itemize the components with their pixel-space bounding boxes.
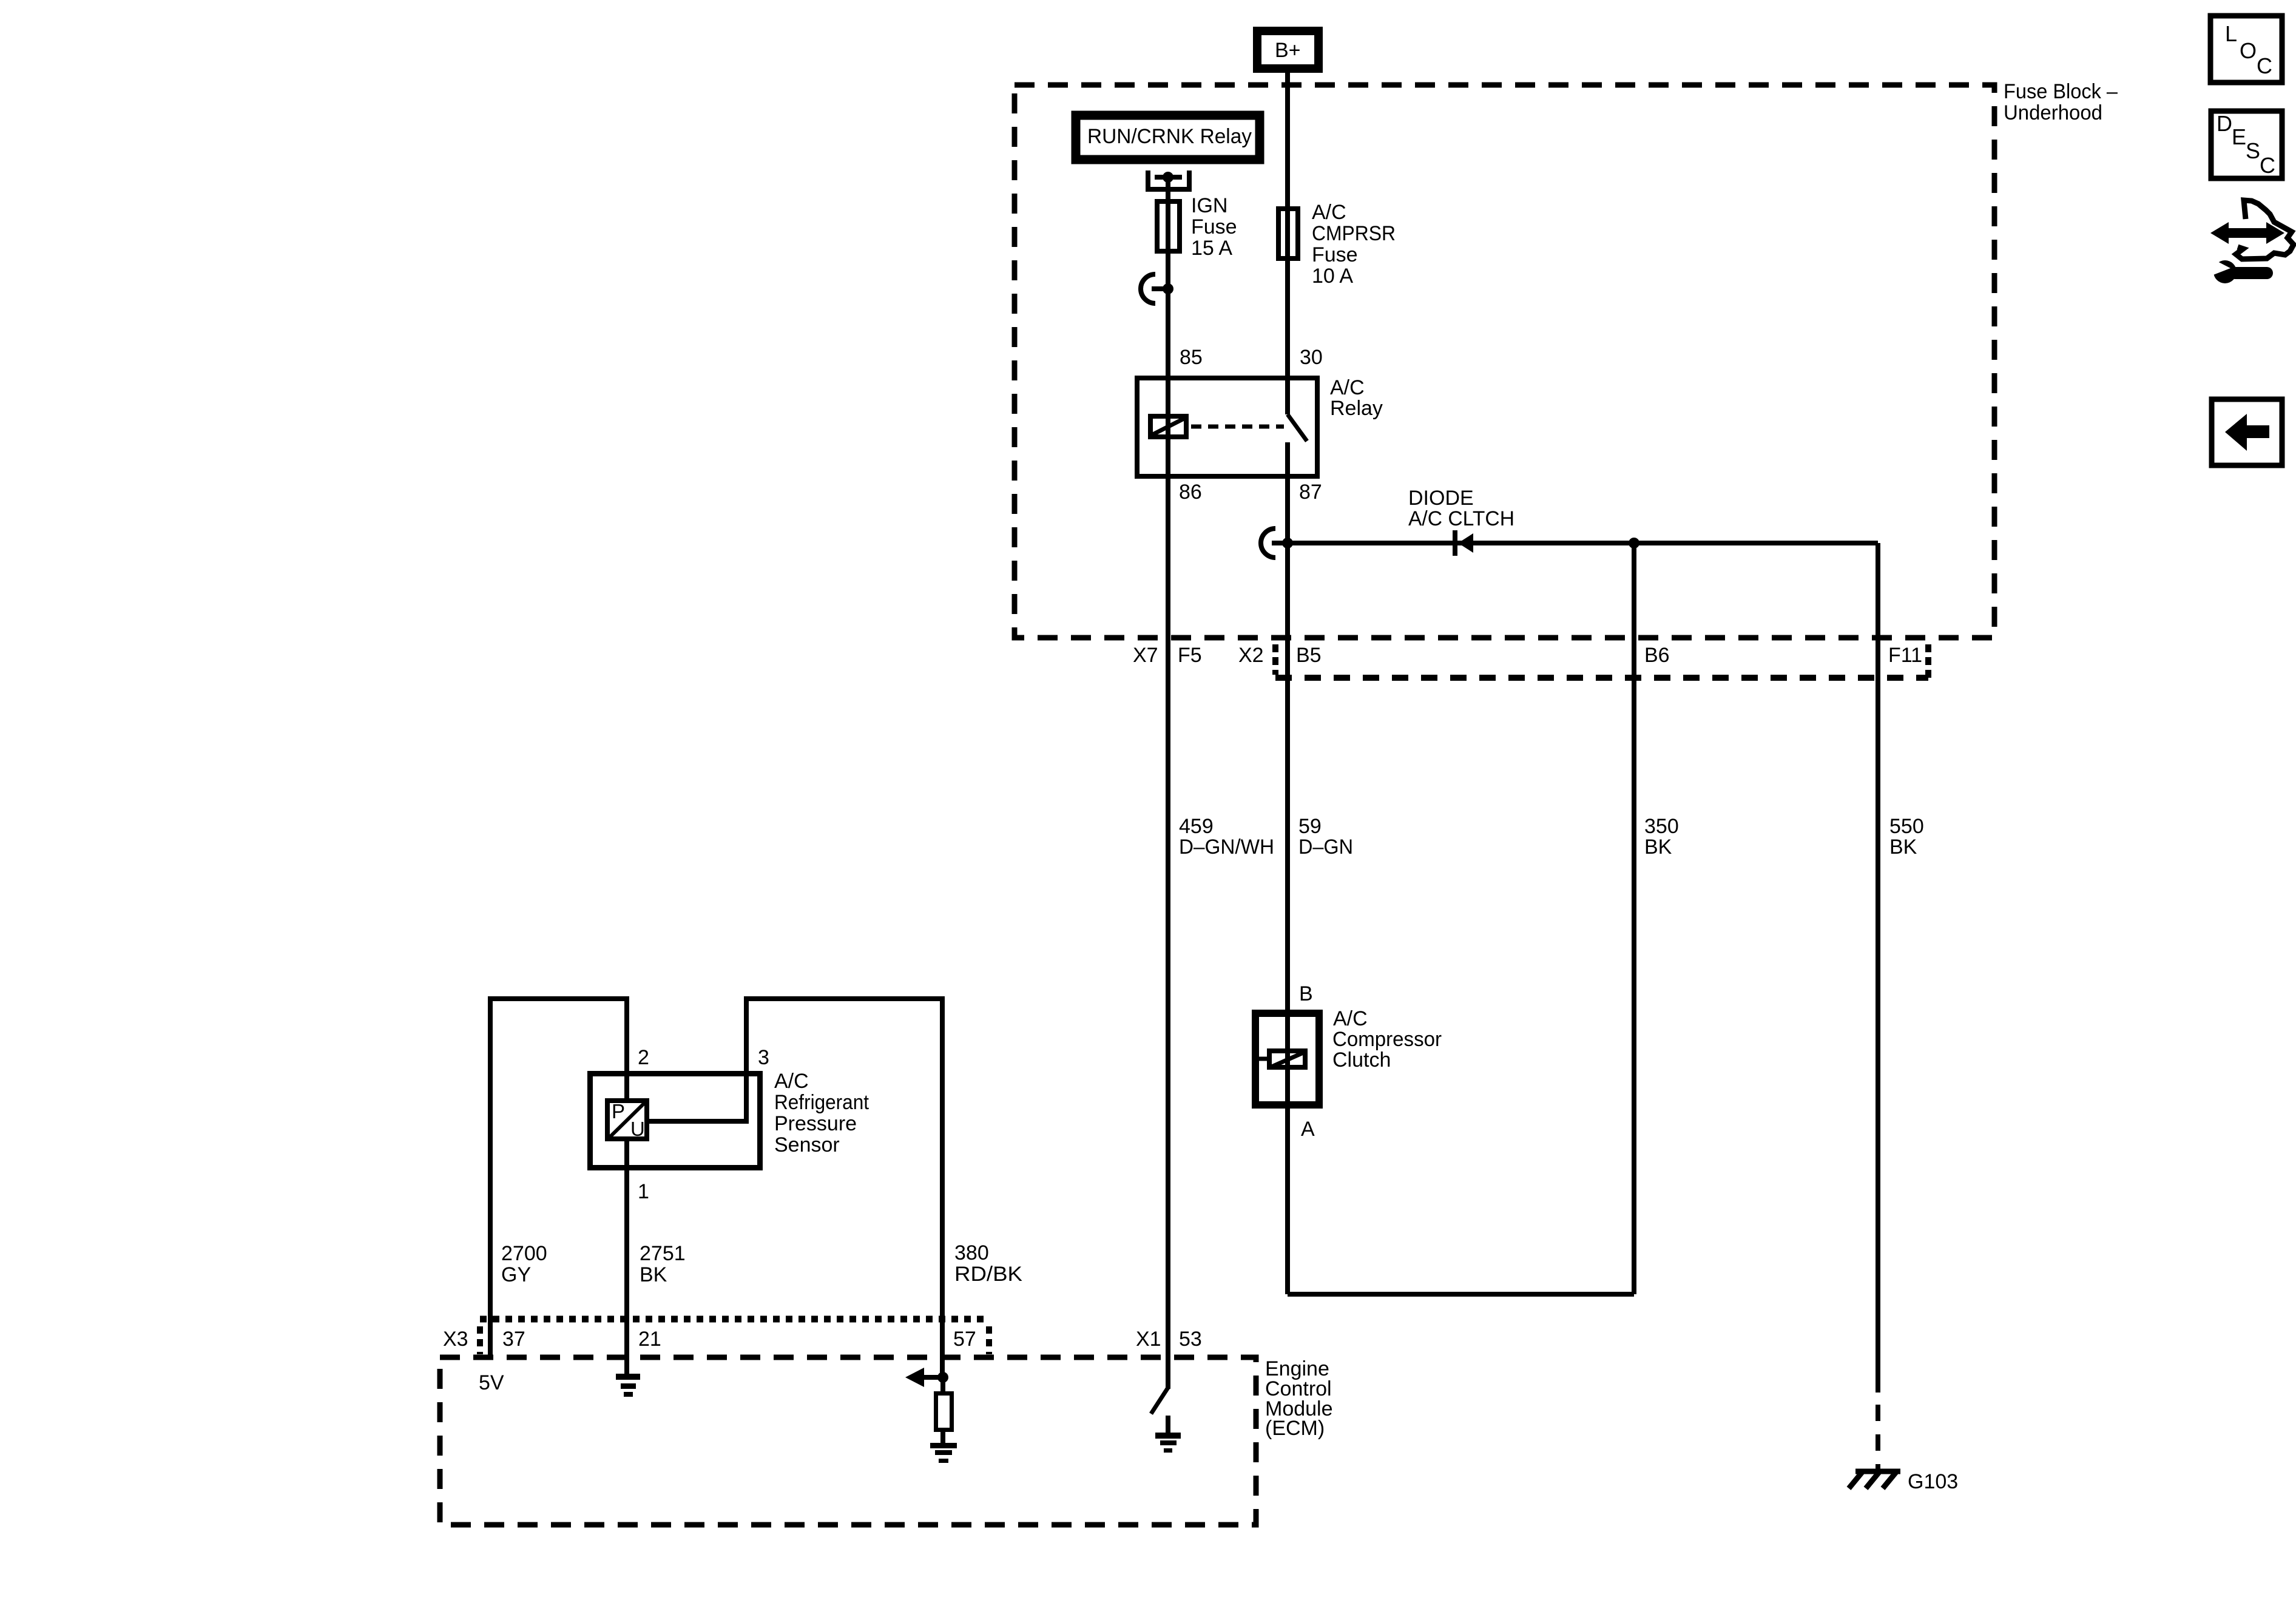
svg-text:B5: B5 [1296,644,1322,667]
signal arrow into ECM [905,1368,943,1387]
A/C compressor clutch coil box [1255,1013,1319,1105]
svg-text:57: 57 [953,1328,976,1351]
svg-text:S: S [2246,138,2260,163]
icon back arrow button [2212,399,2282,465]
icon LOC button [2210,16,2282,83]
switch low-side driver at ECM pin 53 [1151,1388,1168,1414]
connector X3 dotted row at ECM [480,1319,989,1354]
svg-text:A/C: A/C [1333,1007,1368,1030]
label Engine Control Module (ECM) [1265,1357,1333,1440]
fuse F2 A/C CMPRSR 10 A [1278,201,1396,288]
svg-text:Fuse: Fuse [1312,243,1358,266]
svg-text:DIODE: DIODE [1408,487,1474,510]
svg-text:F11: F11 [1888,644,1922,667]
junction dot at ECM pin 57 [937,1372,948,1383]
svg-text:L: L [2225,21,2237,46]
wire sensor internal signal horizontal [649,1119,749,1124]
svg-text:X7: X7 [1133,644,1158,667]
wire 5V circuit 2700 GY loop [490,999,627,1357]
svg-text:Underhood: Underhood [2004,101,2102,124]
svg-text:Compressor: Compressor [1332,1028,1442,1051]
svg-text:Fuse Block –: Fuse Block – [2004,80,2118,103]
icon DESC button [2211,111,2282,178]
wire 550 BK dashed continuation to G103 [1876,1405,1880,1474]
svg-text:Relay: Relay [1330,397,1383,420]
ground G103 chassis symbol [1849,1471,1900,1488]
svg-text:2: 2 [638,1046,649,1069]
svg-text:Clutch: Clutch [1332,1048,1391,1072]
wire label 2700 GY [501,1242,547,1286]
svg-text:P: P [612,1100,625,1122]
svg-text:A/C: A/C [1312,201,1346,224]
junction dot at relay socket [1163,172,1173,183]
connector X2 dotted bracket at fuse block [1275,644,1928,681]
svg-text:D–GN/WH: D–GN/WH [1179,836,1274,859]
RUN/CRNK Relay feed box [1076,115,1260,160]
relay socket bracket [1146,170,1192,192]
svg-text:E: E [2232,124,2246,149]
relay K1 A/C Relay box [1137,378,1317,476]
svg-text:C: C [2260,153,2275,178]
svg-text:Pressure: Pressure [774,1112,857,1135]
svg-text:10 A: 10 A [1312,265,1353,288]
svg-text:A/C: A/C [774,1070,809,1093]
svg-text:X3: X3 [443,1328,468,1351]
wire clutch return bottom horizontal [1288,1292,1634,1297]
svg-text:BK: BK [640,1263,667,1286]
wire label 350 BK [1644,815,1679,859]
label A/C Relay [1330,376,1383,420]
svg-text:3: 3 [758,1046,769,1069]
junction dot node B6 branch [1629,538,1639,549]
svg-text:5V: 5V [479,1371,504,1394]
svg-text:350: 350 [1644,815,1679,838]
wire label 2751 BK [640,1242,686,1286]
svg-text:D: D [2217,111,2232,136]
svg-text:BK: BK [1889,836,1917,859]
svg-text:59: 59 [1298,815,1322,838]
svg-text:X1: X1 [1136,1328,1161,1351]
svg-text:550: 550 [1889,815,1924,838]
svg-text:A: A [1301,1118,1315,1141]
svg-text:1: 1 [638,1180,649,1203]
wire label 459 D-GN/WH [1179,815,1274,859]
label A/C Refrigerant Pressure Sensor [774,1070,869,1156]
svg-text:RUN/CRNK Relay: RUN/CRNK Relay [1087,125,1252,148]
diode D1 A/C CLTCH [1455,530,1473,556]
wire label 550 BK [1889,815,1924,859]
fuse block underhood dashed enclosure [1015,85,1994,638]
svg-text:U: U [630,1118,645,1140]
splice S1 below IGN fuse [1141,274,1173,303]
ground at ECM pin 21 [616,1374,640,1397]
svg-text:IGN: IGN [1191,194,1227,217]
wire label 380 RD/BK [954,1241,1022,1286]
svg-text:B: B [1299,982,1313,1005]
relay coil [1150,416,1186,437]
svg-text:30: 30 [1300,346,1323,369]
svg-text:15 A: 15 A [1191,237,1232,260]
svg-text:459: 459 [1179,815,1214,838]
svg-text:B+: B+ [1275,39,1301,62]
wire sensor pin3 circuit 380 RD/BK loop [746,999,942,1377]
ECM dashed enclosure [440,1357,1256,1525]
label A/C Compressor Clutch [1332,1007,1442,1072]
svg-text:87: 87 [1299,481,1322,504]
ground under resistor [930,1443,957,1463]
svg-text:D–GN: D–GN [1298,836,1353,859]
svg-text:GY: GY [501,1263,531,1286]
svg-text:Sensor: Sensor [774,1133,840,1156]
label Fuse Block - Underhood [2004,80,2118,124]
svg-text:2700: 2700 [501,1242,547,1265]
power symbol B+ [1257,31,1319,69]
wire circuit 350 BK vertical [1632,543,1636,1294]
svg-text:37: 37 [502,1328,525,1351]
svg-text:B6: B6 [1644,644,1670,667]
A/C refrigerant pressure sensor box [590,1074,760,1168]
svg-text:86: 86 [1179,481,1202,504]
wire label 59 D-GN [1298,815,1353,859]
svg-text:RD/BK: RD/BK [954,1263,1022,1286]
svg-text:380: 380 [954,1241,989,1264]
wire sensor pin1 circuit 2751 BK [624,1071,629,1374]
fuse F1 IGN 15 A [1157,194,1237,260]
wire B+ feed to relay pin 30 [1285,73,1290,414]
svg-text:C: C [2257,53,2272,78]
svg-text:2751: 2751 [640,1242,686,1265]
wire circuit 459 vertical (relay 85/86 to ECM 53) [1166,177,1170,1389]
svg-text:O: O [2240,38,2257,63]
wire circuit 550 BK vertical [1876,543,1880,1393]
svg-text:Fuse: Fuse [1191,215,1237,238]
icon vehicle repair glyph [2209,200,2294,283]
resistor pull-down in ECM [936,1377,952,1443]
svg-text:21: 21 [638,1328,661,1351]
wire diode branch horizontal [1288,541,1878,545]
label DIODE A/C CLTCH [1408,487,1514,530]
svg-text:A/C: A/C [1330,376,1365,399]
ground at ECM driver [1155,1416,1181,1453]
svg-text:53: 53 [1179,1328,1202,1351]
relay actuation dashed link [1191,425,1284,429]
sensor P/U transducer element [607,1100,647,1140]
svg-text:(ECM): (ECM) [1265,1417,1325,1440]
wire circuit 59 vertical (relay 87 to clutch) [1285,442,1290,1294]
svg-text:85: 85 [1180,346,1203,369]
svg-text:CMPRSR: CMPRSR [1312,222,1396,245]
svg-text:BK: BK [1644,836,1672,859]
svg-text:G103: G103 [1908,1470,1958,1493]
relay switch contact arm [1288,414,1307,441]
svg-text:A/C CLTCH: A/C CLTCH [1408,507,1514,530]
svg-text:X2: X2 [1238,644,1264,667]
svg-text:Refrigerant: Refrigerant [774,1091,869,1114]
svg-text:F5: F5 [1178,644,1202,667]
splice S2 at relay output [1261,528,1293,558]
